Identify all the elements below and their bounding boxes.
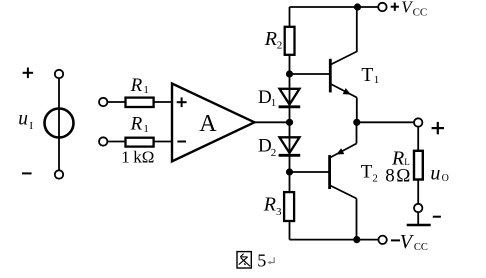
svg-text:1 kΩ: 1 kΩ bbox=[121, 148, 154, 167]
svg-text:2: 2 bbox=[271, 147, 277, 159]
svg-text:2: 2 bbox=[372, 173, 378, 185]
svg-text:8: 8 bbox=[385, 165, 395, 186]
svg-text:3: 3 bbox=[276, 206, 282, 218]
svg-text:D: D bbox=[258, 135, 272, 156]
svg-text:1: 1 bbox=[374, 74, 380, 86]
svg-text:R: R bbox=[130, 75, 143, 96]
svg-text:CC: CC bbox=[413, 7, 428, 19]
svg-text:5: 5 bbox=[257, 250, 266, 270]
svg-text:T: T bbox=[361, 65, 373, 86]
svg-text:2: 2 bbox=[277, 40, 283, 52]
svg-text:1: 1 bbox=[143, 123, 149, 135]
svg-text:u: u bbox=[18, 109, 28, 130]
svg-text:R: R bbox=[264, 28, 277, 50]
svg-text:O: O bbox=[442, 173, 449, 184]
svg-text:1: 1 bbox=[143, 84, 149, 96]
svg-text:1: 1 bbox=[271, 97, 277, 109]
svg-text:R: R bbox=[130, 113, 143, 134]
svg-text:D: D bbox=[258, 87, 272, 108]
svg-text:R: R bbox=[263, 194, 276, 216]
svg-text:V: V bbox=[400, 231, 415, 253]
svg-text:CC: CC bbox=[414, 242, 428, 253]
svg-text:T: T bbox=[361, 162, 373, 183]
svg-text:u: u bbox=[430, 163, 440, 185]
svg-text:A: A bbox=[199, 111, 217, 137]
svg-text:I: I bbox=[29, 120, 33, 132]
svg-text:Ω: Ω bbox=[396, 165, 410, 186]
